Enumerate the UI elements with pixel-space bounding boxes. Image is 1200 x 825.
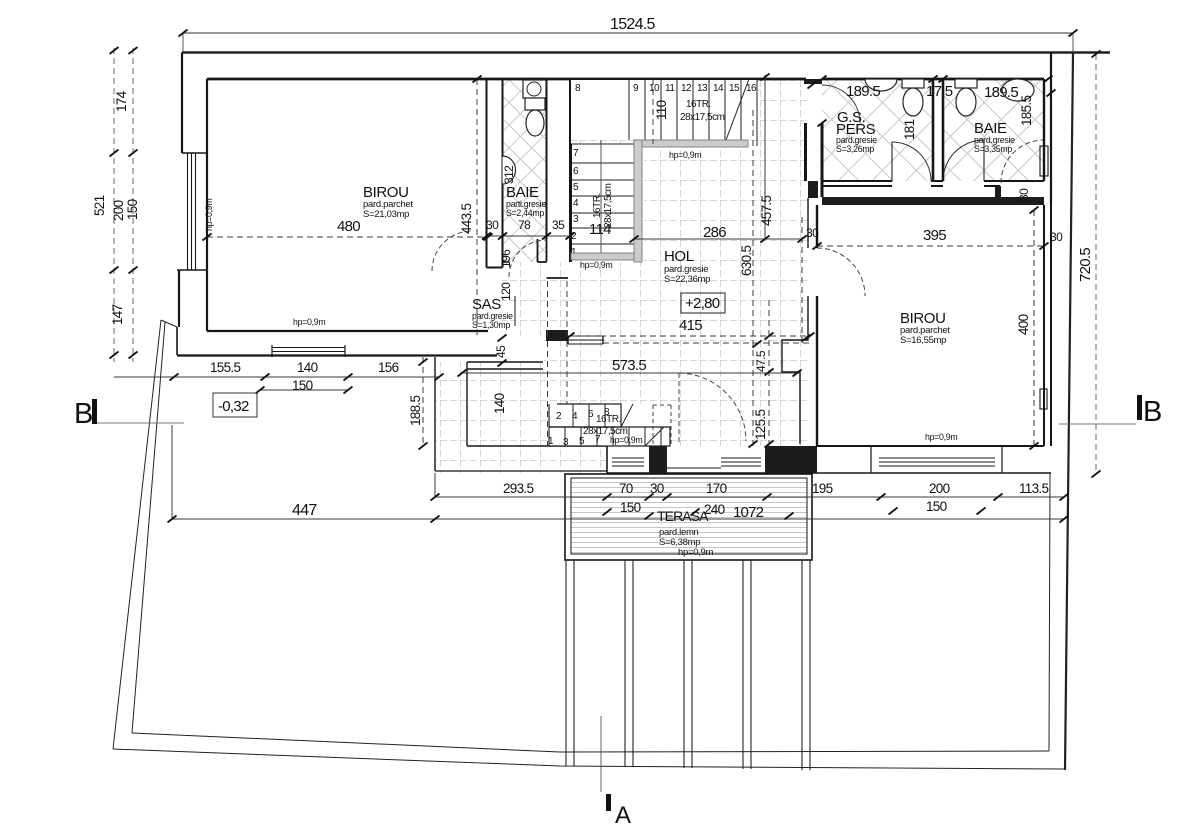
section marker B left [92,399,97,424]
svg-text:110: 110 [654,100,669,120]
svg-text:286: 286 [703,224,726,241]
property line top [182,51,1110,54]
TERASA [565,474,812,560]
svg-text:10: 10 [649,83,660,94]
svg-text:TERASA: TERASA [657,508,709,524]
lower terrace parapet walls [467,445,607,447]
svg-text:17,5: 17,5 [926,83,953,100]
svg-text:150: 150 [125,199,140,220]
stair parapet bands [571,140,748,262]
svg-text:hp=0,9m: hp=0,9m [293,317,325,327]
terasa post 3 [684,560,692,768]
dashed interior dim lines [114,75,1064,519]
svg-text:B: B [1143,396,1162,428]
terasa post 4 [743,560,751,769]
dim line 1524.5 [183,32,1073,34]
stairs upper flight [571,79,757,146]
svg-text:630.5: 630.5 [739,246,754,276]
svg-text:70: 70 [619,481,633,496]
svg-text:156: 156 [378,360,399,375]
svg-text:S=16,55mp: S=16,55mp [900,335,946,346]
svg-text:447: 447 [292,502,317,519]
posts [566,560,810,770]
svg-text:174: 174 [114,90,129,112]
svg-text:457.5: 457.5 [759,196,774,226]
BIROU1 walls [177,53,1044,358]
svg-text:113.5: 113.5 [1019,481,1048,496]
svg-text:1072: 1072 [733,504,764,521]
wall pier [649,446,667,473]
svg-text:47.5: 47.5 [754,350,768,372]
BAIE1 basin [503,156,516,184]
tile hatch stair landing [571,79,808,144]
svg-text:114: 114 [589,221,611,238]
window BIROU 2 south [879,458,995,466]
svg-text:S=1,30mp: S=1,30mp [472,320,510,330]
svg-text:170: 170 [706,481,727,496]
svg-text:S=22,36mp: S=22,36mp [664,274,710,285]
window right of terasa door [721,458,761,466]
ticks [168,74,1069,523]
G.S.PERS wc [902,79,924,88]
door arc G.S.PERS [892,142,931,181]
door arc BIROU 1 [432,231,472,271]
svg-text:hp=0,9m: hp=0,9m [610,435,642,445]
svg-text:hp=0,9m: hp=0,9m [678,547,714,558]
interior walls W1 W2 / SAS [487,79,571,341]
svg-text:573.5: 573.5 [612,357,646,374]
dim line bottom row [435,496,1064,498]
svg-text:415: 415 [679,317,702,334]
svg-text:155.5: 155.5 [210,360,240,375]
lower stray stair [548,404,671,448]
right dimension 720.5 [1077,51,1101,478]
stair lower flight [571,144,634,258]
BAIE2 wc [955,79,977,88]
BAIE1 wc [525,98,545,110]
svg-text:443.5: 443.5 [459,204,474,234]
door arc TERASA [679,373,746,441]
svg-text:181: 181 [902,119,917,140]
landing / G.S. wall [804,79,822,197]
partition wall BIROU1/BAIE1 [486,79,488,236]
door arc BIROU 2 [817,248,865,296]
left dimension column [92,47,140,362]
bathrooms south wall [822,180,1044,182]
bathrooms mid + right walls [933,53,1051,206]
svg-text:hp=0,9m: hp=0,9m [925,432,957,442]
svg-text:14: 14 [713,83,724,94]
BIROU 2 north wall [822,197,1044,205]
svg-text:150: 150 [620,500,641,515]
svg-text:12: 12 [681,83,692,94]
door leaf TERASA [678,373,680,445]
svg-text:30: 30 [650,481,664,496]
svg-text:189.5: 189.5 [984,84,1018,101]
BAIE2 sink [1002,79,1034,101]
terasa post 2 [625,560,633,767]
svg-text:293.5: 293.5 [503,481,533,496]
svg-text:185.5: 185.5 [1019,96,1034,126]
BIROU2 walls [782,181,1051,446]
terasa post 5 [802,560,810,770]
level tag +2,80 [681,293,725,313]
bathroom fixtures [865,79,1034,116]
wood deck hatch TERASA [571,478,807,554]
room labels [204,83,1063,558]
terasa post 1 [566,560,574,766]
svg-text:hp=0,9m: hp=0,9m [204,199,214,231]
svg-text:200: 200 [929,481,950,496]
window south wall BIROU 1 [272,345,345,357]
svg-text:13: 13 [697,83,708,94]
svg-text:S=2,44mp: S=2,44mp [506,208,544,218]
svg-text:30: 30 [1050,230,1063,244]
svg-text:hp=0,9m: hp=0,9m [580,260,612,270]
diamond hatch G.S. PERS [822,79,933,181]
svg-text:B: B [74,398,93,430]
svg-text:78: 78 [518,218,531,232]
svg-text:+2,80: +2,80 [685,295,720,312]
svg-text:195: 195 [812,481,833,496]
top dimension 1524.5 [179,16,1078,53]
dim line 480 [207,236,488,238]
BIROU 1 exterior walls [181,53,183,154]
stairs lower flight [571,109,657,262]
partition wall G.S.PERS/BAIE2 [933,79,943,181]
svg-text:30: 30 [486,218,499,232]
svg-text:150: 150 [926,499,947,514]
svg-text:30: 30 [1017,188,1031,201]
wall pier 2 [765,446,817,473]
svg-text:125.5: 125.5 [753,410,768,440]
section marks [74,395,1162,825]
svg-text:147: 147 [110,304,125,325]
G.S.PERS sink [865,79,897,91]
dim line 447/1072 [172,518,1064,520]
door arc BAIE 1 [509,240,546,277]
site boundary bottom [113,749,1065,769]
svg-text:720.5: 720.5 [1077,248,1094,282]
BAIE1 fixtures [503,80,547,184]
svg-text:28x17,5cm: 28x17,5cm [680,112,725,123]
section marker B right [1137,395,1142,420]
tile hatch SAS corridor [502,262,644,336]
property line right [1065,53,1073,770]
TERASA deck border [565,474,812,560]
window west wall [188,153,196,270]
svg-text:16TR.: 16TR. [592,193,603,218]
bottom walls / windows [435,336,1051,473]
svg-text:S=3,26mp: S=3,26mp [836,144,874,154]
svg-text:521: 521 [92,195,107,216]
svg-text:S=21,03mp: S=21,03mp [363,209,409,220]
wall landing/G.S.PERS [804,123,807,181]
svg-text:150: 150 [292,378,313,393]
partition wall BAIE1/stair [546,79,548,239]
svg-text:15: 15 [729,83,740,94]
level tag -0,32 [213,393,257,417]
diamond hatch BAIE 1 [503,79,547,262]
section marker A bottom [600,716,602,792]
svg-text:S=3,35mp: S=3,35mp [974,144,1012,154]
svg-text:16: 16 [746,83,757,94]
svg-text:30: 30 [806,226,819,240]
svg-text:400: 400 [1016,314,1031,335]
door arc G.S.PERS entry [822,85,860,123]
bathrooms bottom wall [822,181,1044,197]
svg-text:-0,32: -0,32 [218,398,249,415]
door arc BAIE 2 right [1001,140,1044,183]
svg-text:188.5: 188.5 [408,396,423,426]
svg-text:200: 200 [111,200,126,221]
svg-text:189.5: 189.5 [846,83,880,100]
svg-text:45: 45 [494,345,508,358]
svg-text:480: 480 [337,218,360,235]
tile hatch lower terrace [435,362,644,446]
svg-text:35: 35 [552,218,565,232]
stair upper flight [571,80,757,140]
svg-text:395: 395 [923,227,946,244]
BAIE1 sink [523,80,546,98]
svg-text:120: 120 [499,282,513,301]
svg-text:1524.5: 1524.5 [610,16,656,33]
site boundary left [113,320,161,749]
svg-text:140: 140 [297,360,318,375]
window left of terasa door [612,458,644,466]
door arc BAIE 2 [943,140,984,181]
svg-text:16TR.: 16TR. [596,414,621,425]
exterior stair 16 treads [549,404,670,446]
svg-text:hp=0,9m: hp=0,9m [669,150,701,160]
svg-text:16TR.: 16TR. [686,99,711,110]
tile hatch HOL [644,144,808,446]
hatch areas [435,79,1044,554]
svg-text:140: 140 [492,393,507,414]
svg-text:196: 196 [499,249,513,268]
svg-text:HOL: HOL [664,248,694,265]
svg-text:11: 11 [665,83,675,94]
svg-text:A: A [615,802,631,825]
svg-text:312: 312 [502,165,516,184]
site boundary [113,53,1110,771]
diamond hatch BAIE 2 [943,79,1044,181]
stair parapet hp=0,9m [634,140,748,147]
